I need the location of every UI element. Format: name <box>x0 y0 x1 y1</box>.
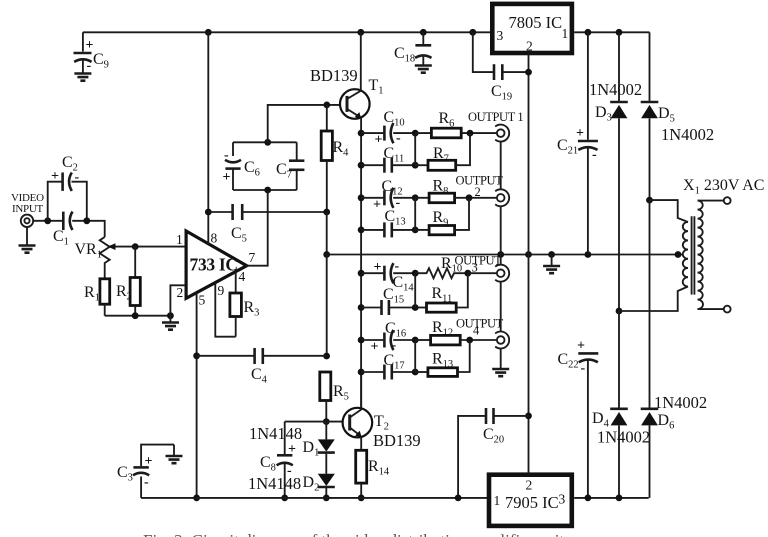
capacitor C22 <box>558 339 599 498</box>
svg-text:1N4002: 1N4002 <box>661 125 714 144</box>
svg-text:+: + <box>51 169 59 184</box>
svg-text:8: 8 <box>211 231 218 246</box>
node junction input/C2 branch <box>44 217 51 224</box>
node junction mid rail/ground <box>548 251 555 258</box>
svg-text:+: + <box>145 454 153 469</box>
capacitor C2 <box>51 154 80 191</box>
svg-text:-: - <box>592 148 597 163</box>
capacitor C16 <box>361 320 415 355</box>
wire C6 C7 box top <box>233 141 297 143</box>
node junction R14/bottom rail <box>358 495 365 502</box>
svg-text:3: 3 <box>497 28 504 43</box>
node junction C11/R7 <box>412 162 419 169</box>
terminal AC top <box>724 197 731 204</box>
diode D3 1N4002 <box>589 32 642 311</box>
capacitor C12 <box>361 178 415 213</box>
wire C14-C15 link <box>414 273 416 307</box>
wire input to C1 <box>33 220 62 222</box>
svg-text:OUTPUT: OUTPUT <box>455 254 503 268</box>
node junction D4/bottom rail <box>616 495 623 502</box>
resistor R6 <box>415 110 496 138</box>
capacitor C15 <box>361 286 415 315</box>
capacitor C5 <box>208 204 326 245</box>
capacitor C1 <box>53 212 73 248</box>
resistor R7 <box>415 133 470 170</box>
transistor Q1 T1 BD139 <box>310 66 384 119</box>
wire output shells chain <box>500 142 502 369</box>
wire regulator pin2 vertical mid rail to 7905 <box>528 255 530 475</box>
node junction R2/bottom wire <box>132 312 139 319</box>
svg-text:2: 2 <box>475 185 481 199</box>
svg-text:9: 9 <box>218 283 225 298</box>
node junction rail/C18 <box>420 29 427 36</box>
svg-text:-: - <box>392 338 397 353</box>
node junction C8/bottom rail <box>281 495 288 502</box>
transformer X1 secondary winding <box>683 222 688 287</box>
node junction bus/mid rail <box>323 251 330 258</box>
transformer X1 primary winding <box>698 201 703 310</box>
wire 733 pin 4 <box>235 272 237 293</box>
diode D6 1N4002 <box>641 393 707 498</box>
node junction bus/C10 <box>358 130 365 137</box>
svg-text:2: 2 <box>177 285 184 300</box>
wire top +V rail right of 7805 <box>574 31 649 33</box>
node junction D3 line/secondary bottom <box>616 308 623 315</box>
node junction rail/D3 <box>616 29 623 36</box>
node junction D5 line/secondary top <box>646 197 653 204</box>
wire bottom -V rail left of 7905 <box>141 497 490 499</box>
node junction mid rail/output shells <box>497 251 504 258</box>
ground near C3 <box>166 445 183 464</box>
wire pin 8 vertical from top rail <box>207 32 209 243</box>
svg-text:1: 1 <box>494 493 501 508</box>
diode D5 1N4002 <box>641 32 714 200</box>
connector OUTPUT 4 <box>456 317 509 349</box>
wire bottom -V rail right of 7905 <box>574 497 648 499</box>
wire C12-C13 link <box>414 198 416 230</box>
capacitor C21 <box>557 32 598 254</box>
node junction bus/C11 <box>358 162 365 169</box>
svg-text:4: 4 <box>239 269 246 284</box>
node junction C20/pin2 <box>525 413 532 420</box>
svg-text:5: 5 <box>199 293 206 308</box>
wire 0V mid rail <box>327 254 682 256</box>
node junction C1/C2 <box>83 217 90 224</box>
node junction box top <box>264 139 271 146</box>
node junction bus/C14 <box>358 270 365 277</box>
node junction wiper/R2 <box>132 243 139 250</box>
node junction C10/R6 <box>412 130 419 137</box>
svg-text:Fig. 2: Circuit diagram of the: Fig. 2: Circuit diagram of the video dis… <box>143 531 564 537</box>
ground below pin 2 node <box>162 323 179 330</box>
svg-text:-: - <box>395 259 400 274</box>
ground below C18 <box>415 66 432 73</box>
wire C16-C17 link <box>414 340 416 372</box>
wire T1 emitter output bus <box>360 117 362 407</box>
diode D2 1N4148 <box>248 474 335 498</box>
wire C2 to junction <box>72 182 87 221</box>
resistor R12 <box>415 319 496 345</box>
node junction R8/output2 <box>466 194 473 201</box>
node junction bus/C17 <box>358 369 365 376</box>
resistor R9 <box>415 198 469 235</box>
capacitor C11 <box>361 145 415 173</box>
node junction rail/C19 <box>469 29 476 36</box>
svg-text:BD139: BD139 <box>373 431 421 450</box>
resistor R10 zigzag <box>415 255 468 278</box>
svg-text:1N4002: 1N4002 <box>597 428 650 447</box>
wire 733 pin7 output up to box <box>246 190 268 266</box>
node junction C15/R11 <box>412 304 419 311</box>
node junction C22/bottom rail <box>585 495 592 502</box>
resistor R13 <box>415 340 470 376</box>
capacitor C17 <box>361 352 415 380</box>
svg-text:3: 3 <box>472 261 478 275</box>
node junction R12/output4 <box>466 337 473 344</box>
svg-text:BD139: BD139 <box>310 66 358 85</box>
svg-text:+: + <box>577 339 585 354</box>
svg-text:1N4002: 1N4002 <box>654 393 707 412</box>
capacitor C3 <box>117 445 174 498</box>
wire 733 pin 9 <box>215 283 235 337</box>
wire T2 base <box>285 421 349 423</box>
resistor R4 <box>321 105 349 212</box>
wire D3 line to D4 <box>618 311 620 408</box>
terminal AC bottom <box>724 306 731 313</box>
svg-text:1N4002: 1N4002 <box>589 80 642 99</box>
wire T2 emitter to R14 <box>360 437 362 450</box>
svg-text:7905 IC: 7905 IC <box>505 493 559 512</box>
svg-text:+: + <box>371 340 379 355</box>
node junction bus/C15 <box>358 304 365 311</box>
ground below C9 <box>74 74 91 81</box>
ground below input connector <box>19 246 36 253</box>
node junction rail/C21 <box>585 29 592 36</box>
resistor R2 <box>116 247 140 316</box>
wire bias bus down to mid rail <box>326 212 328 255</box>
transistor Q2 T2 BD139 <box>343 408 421 450</box>
connector J-in RCA video input <box>21 215 33 245</box>
wire C2 branch up <box>48 182 62 221</box>
svg-text:-: - <box>396 196 401 211</box>
svg-text:1N4148: 1N4148 <box>248 474 301 493</box>
node junction mid rail/C21 C22 <box>585 251 592 258</box>
node junction bus/C13 <box>358 227 365 234</box>
potentiometer VR1 <box>75 237 187 279</box>
svg-text:+: + <box>373 198 381 213</box>
regulator U3 7905 IC <box>489 475 572 526</box>
node junction R4-C5 node <box>323 209 330 216</box>
capacitor C7 <box>276 142 304 190</box>
connector OUTPUT 3 <box>455 254 510 282</box>
svg-text:+: + <box>374 260 382 275</box>
node junction mid rail/transformer tap <box>675 251 682 258</box>
wire primary bottom lead <box>698 308 724 310</box>
connector OUTPUT 1 <box>468 110 523 142</box>
diode D1 1N4148 <box>249 422 335 474</box>
resistor R1 <box>84 279 110 316</box>
node junction C12/R8 <box>412 194 419 201</box>
node junction box bottom <box>264 187 271 194</box>
wire regulator pin2 vertical 7805 to mid rail <box>528 53 530 255</box>
wire R10 to output3 <box>468 272 497 274</box>
svg-text:7: 7 <box>249 250 256 265</box>
transformer X1 core <box>692 216 695 294</box>
node junction rail/T1 collector <box>357 29 364 36</box>
op-amp U1 733 IC triangle <box>186 231 247 298</box>
node junction C19/pin2 <box>525 69 532 76</box>
connector OUTPUT 2 <box>456 174 510 207</box>
svg-text:+: + <box>576 126 584 141</box>
ground on mid rail <box>543 255 560 274</box>
svg-text:+: + <box>288 442 296 457</box>
svg-text:-: - <box>581 361 586 376</box>
wire D5 line to D6 <box>649 200 651 407</box>
wire C10-C11 link <box>414 133 416 165</box>
capacitor C4 <box>197 348 327 386</box>
svg-text:INPUT: INPUT <box>12 203 43 215</box>
resistor R5 <box>320 372 349 422</box>
capacitor C18 <box>394 32 432 65</box>
capacitor C6 <box>223 142 260 190</box>
wire top +V rail left of 7805 <box>83 31 490 33</box>
svg-text:2: 2 <box>526 478 533 493</box>
regulator U2 7805 IC <box>492 4 572 54</box>
resistor R11 <box>415 273 468 312</box>
wire 733 pin 5 vertical <box>196 293 198 498</box>
svg-text:2: 2 <box>526 39 533 54</box>
node junction bus/C12 <box>358 194 365 201</box>
wire C1 to VR1 corner <box>72 221 105 237</box>
capacitor C13 <box>361 208 415 237</box>
node VIDEO INPUT label <box>11 192 44 215</box>
capacitor C14 <box>361 259 415 294</box>
resistor R14 <box>356 450 390 498</box>
node junction C20/bottom rail <box>455 495 462 502</box>
svg-text:OUTPUT: OUTPUT <box>456 317 504 331</box>
node junction C17/R13 <box>412 369 419 376</box>
capacitor C8 <box>260 422 296 498</box>
svg-text:1: 1 <box>176 232 183 247</box>
wire box top to T1 base <box>268 105 346 142</box>
node junction C16/R12 <box>412 337 419 344</box>
node junction mid rail/regulator pin2 line <box>525 251 532 258</box>
svg-text:-: - <box>396 131 401 146</box>
svg-text:-: - <box>144 475 149 490</box>
svg-text:3: 3 <box>559 492 566 507</box>
node junction rail/pin8 line <box>205 29 212 36</box>
node junction pin5/C4 wire <box>193 352 200 359</box>
node junction T2 base node <box>323 418 330 425</box>
node junction pin2/bottom wire <box>167 312 174 319</box>
node junction bus/C16 <box>358 337 365 344</box>
capacitor C10 <box>361 109 415 148</box>
wire bias bus mid rail to C4 node <box>326 255 328 357</box>
wire 733 pin 2 <box>170 285 186 315</box>
node junction C14/R10 <box>412 270 419 277</box>
node junction D2/bottom rail <box>323 495 330 502</box>
resistor R3 <box>230 293 260 337</box>
ground below output 4 <box>492 369 509 376</box>
node junction pin5/bottom rail <box>193 495 200 502</box>
wire transformer secondary top lead <box>650 200 689 222</box>
wire bottom of R1 R2 to ground node <box>105 315 171 317</box>
wire transformer secondary bottom lead <box>619 287 688 312</box>
svg-text:+: + <box>375 133 383 148</box>
capacitor C20 <box>458 408 528 498</box>
node junction pin8/C5 wire <box>205 209 212 216</box>
wire T1 collector to top rail <box>360 32 362 91</box>
node junction R10/output3 <box>464 270 471 277</box>
svg-text:-: - <box>87 59 92 74</box>
node junction C13/R9 <box>412 227 419 234</box>
diode D4 1N4002 <box>592 409 650 498</box>
wire C6 C7 box bottom <box>233 189 297 191</box>
resistor R8 <box>415 178 496 203</box>
svg-text:OUTPUT 1: OUTPUT 1 <box>468 110 523 124</box>
svg-text:+: + <box>223 170 231 185</box>
node junction bus/C4 wire <box>323 353 330 360</box>
capacitor C9 <box>74 32 109 73</box>
svg-text:7805 IC: 7805 IC <box>509 13 563 32</box>
node junction R6/output1 <box>467 130 474 137</box>
svg-text:1: 1 <box>562 26 569 41</box>
node junction base wire/R4 <box>323 102 330 109</box>
wire T2 collector up <box>360 372 362 408</box>
svg-text:-: - <box>224 148 229 163</box>
svg-text:733 IC: 733 IC <box>190 255 238 275</box>
wire primary top lead <box>698 200 724 202</box>
capacitor C19 <box>473 32 529 102</box>
svg-text:1N4148: 1N4148 <box>249 424 302 443</box>
